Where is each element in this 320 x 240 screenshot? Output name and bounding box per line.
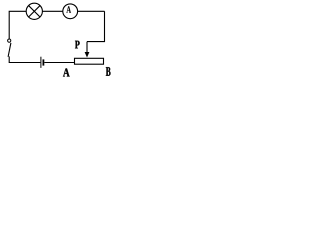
wire below switch	[8, 56, 10, 63]
label B (terminal)	[106, 67, 111, 76]
battery short thick plate	[43, 59, 45, 65]
label P	[75, 41, 80, 49]
slider arrowhead	[85, 52, 90, 58]
wire lamp to ammeter	[42, 10, 62, 12]
wire battery to rheostat	[44, 62, 74, 64]
wire top-left segment	[9, 11, 26, 39]
wire ammeter to top-right corner	[78, 10, 105, 12]
switch pivot contact	[8, 39, 11, 42]
wire right vertical	[87, 11, 105, 41]
rheostat R1 body	[75, 58, 104, 64]
slider arrow stem	[86, 42, 88, 53]
ammeter letter A	[66, 6, 71, 13]
lamp L1	[26, 3, 42, 19]
battery long plate	[40, 57, 42, 68]
switch lever	[8, 43, 11, 57]
wire left to battery	[9, 62, 40, 64]
label A (terminal)	[63, 68, 70, 76]
ammeter A1	[63, 4, 78, 19]
